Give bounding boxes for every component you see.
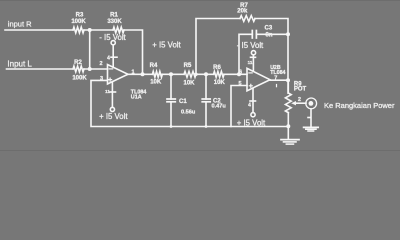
svg-text:0.56u: 0.56u	[181, 110, 196, 116]
svg-text:R4: R4	[150, 63, 158, 69]
svg-text:2: 2	[298, 97, 301, 103]
svg-text:U1A: U1A	[131, 94, 142, 100]
svg-text:POT: POT	[294, 87, 307, 93]
svg-text:C1: C1	[179, 99, 187, 105]
svg-text:2: 2	[99, 61, 102, 67]
svg-text:3n: 3n	[266, 33, 273, 39]
svg-text:- I5 Volt: - I5 Volt	[99, 33, 126, 42]
svg-text:Ke Rangkaian Power: Ke Rangkaian Power	[324, 101, 395, 110]
svg-text:R2: R2	[74, 60, 82, 66]
svg-text:+ I5 Volt: + I5 Volt	[152, 40, 181, 49]
svg-text:C3: C3	[265, 26, 273, 32]
svg-text:330K: 330K	[107, 19, 122, 25]
svg-text:R5: R5	[184, 63, 192, 69]
svg-text:7: 7	[274, 76, 277, 82]
svg-text:- I5 Volt: - I5 Volt	[237, 41, 264, 50]
svg-text:6: 6	[239, 69, 242, 75]
svg-text:100K: 100K	[72, 75, 87, 81]
svg-text:11: 11	[248, 60, 253, 65]
svg-text:TL084: TL084	[270, 70, 285, 76]
svg-text:R3: R3	[76, 13, 84, 19]
svg-text:5: 5	[238, 81, 241, 87]
svg-text:4: 4	[107, 56, 110, 62]
svg-text:11: 11	[105, 89, 110, 94]
svg-text:10K: 10K	[183, 80, 195, 86]
svg-text:R1: R1	[110, 13, 118, 19]
svg-text:3: 3	[100, 76, 103, 82]
svg-text:20k: 20k	[237, 9, 248, 15]
svg-text:0.47u: 0.47u	[212, 103, 227, 109]
svg-text:10K: 10K	[150, 79, 162, 85]
svg-text:10K: 10K	[214, 80, 226, 86]
svg-text:1: 1	[131, 70, 134, 76]
svg-text:4: 4	[248, 103, 251, 109]
svg-text:100K: 100K	[71, 19, 86, 25]
svg-text:Input L: Input L	[7, 59, 32, 68]
svg-text:R6: R6	[213, 65, 221, 71]
svg-text:+ I5 Volt: + I5 Volt	[99, 112, 128, 121]
svg-text:+ I5 Volt: + I5 Volt	[237, 118, 266, 127]
svg-text:input R: input R	[8, 20, 32, 29]
